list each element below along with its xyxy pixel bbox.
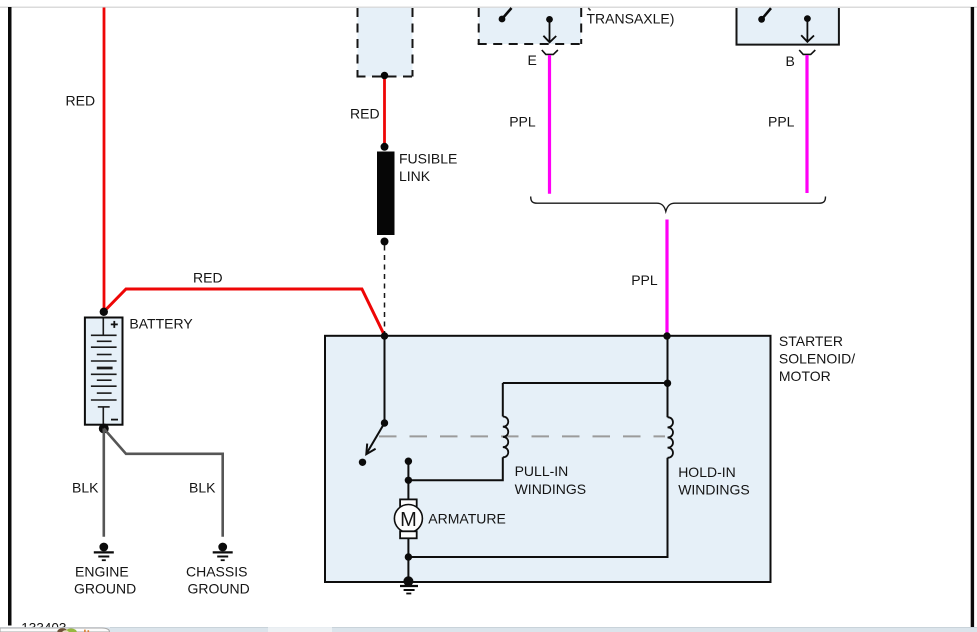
svg-text:PPL: PPL — [768, 113, 795, 129]
svg-text:STARTER: STARTER — [779, 333, 843, 349]
svg-text:GROUND: GROUND — [74, 580, 136, 596]
svg-text:PULL-IN: PULL-IN — [515, 463, 569, 479]
svg-text:PPL: PPL — [631, 272, 658, 288]
svg-text:M: M — [400, 509, 417, 531]
svg-text:RED: RED — [193, 270, 223, 286]
svg-text:ARMATURE: ARMATURE — [428, 510, 506, 526]
svg-text:HOLD-IN: HOLD-IN — [678, 464, 736, 480]
svg-text:RED: RED — [350, 106, 380, 122]
svg-text:BATTERY: BATTERY — [129, 315, 193, 331]
svg-text:GROUND: GROUND — [188, 580, 250, 596]
svg-text:LINK: LINK — [399, 168, 431, 184]
svg-text:SOLENOID/: SOLENOID/ — [779, 350, 855, 366]
svg-text:BLK: BLK — [72, 480, 99, 496]
svg-text:RED: RED — [66, 93, 96, 109]
svg-text:B: B — [786, 53, 795, 69]
svg-text:BLK: BLK — [189, 480, 216, 496]
svg-text:WINDINGS: WINDINGS — [515, 481, 587, 497]
svg-text:TRANSAXLE): TRANSAXLE) — [587, 10, 675, 26]
svg-text:WINDINGS: WINDINGS — [678, 481, 750, 497]
svg-text:ENGINE: ENGINE — [75, 563, 129, 579]
svg-text:CHASSIS: CHASSIS — [186, 563, 247, 579]
svg-text:PPL: PPL — [509, 113, 536, 129]
svg-text:FUSIBLE: FUSIBLE — [399, 151, 457, 167]
svg-text:E: E — [528, 52, 537, 68]
svg-text:MOTOR: MOTOR — [779, 368, 831, 384]
